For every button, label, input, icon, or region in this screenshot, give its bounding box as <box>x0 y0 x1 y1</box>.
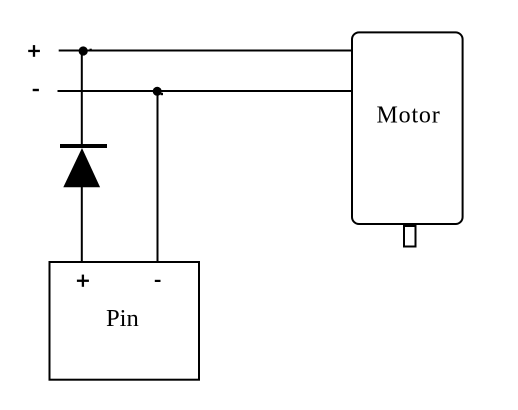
motor shaft tab <box>404 226 416 247</box>
wire negative rail (horizontal, - to Motor) <box>58 90 354 92</box>
pin box (connector) <box>50 262 200 380</box>
diode D1 anode triangle <box>63 148 100 187</box>
wire from diode anode down to Pin box <box>81 187 83 262</box>
node junction on positive rail <box>79 46 88 55</box>
diode D1 cathode bar <box>60 144 107 148</box>
wire from positive junction down to diode cathode <box>81 51 83 145</box>
svg-text:Pin: Pin <box>106 305 139 332</box>
wire positive rail (horizontal, + to Motor) <box>59 50 353 52</box>
motor M1 body <box>352 32 463 224</box>
label - (negative terminal, left) <box>33 89 39 91</box>
label + (positive terminal, top left) <box>28 45 40 57</box>
wire from negative junction down to Pin box <box>157 91 159 262</box>
svg-text:Motor: Motor <box>377 103 441 129</box>
node junction on negative rail <box>153 87 162 96</box>
pin box label - <box>155 280 161 282</box>
pin box label + <box>77 275 89 287</box>
